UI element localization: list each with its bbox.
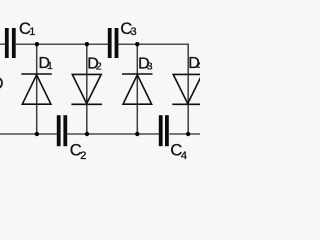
wire vertical D1 branch: [36, 44, 38, 134]
capacitor C1: [5, 28, 9, 58]
node dot bottom rail / D4: [186, 132, 190, 136]
wire vertical D2 branch: [86, 44, 88, 134]
node dot bottom rail / D3: [135, 132, 139, 136]
diode D4 (pointing down, clipped at right edge): [172, 74, 203, 104]
capacitor C4: [159, 115, 163, 146]
svg-text:1: 1: [47, 60, 53, 72]
diode D3 (pointing up): [122, 74, 153, 104]
svg-text:2: 2: [96, 61, 102, 73]
svg-text:3: 3: [131, 26, 137, 38]
node dot bottom rail / D1: [35, 132, 39, 136]
wire top rail segment C1 to C3: [16, 43, 108, 45]
wire vertical D4 branch (from top-rail corner to bottom rail): [187, 44, 189, 135]
wire bottom rail segment C2 to C4: [67, 133, 159, 135]
capacitor C3: [108, 28, 112, 58]
wire top rail segment left of C1: [0, 43, 5, 45]
wire vertical D3 branch: [136, 44, 138, 134]
svg-text:3: 3: [147, 61, 153, 73]
node dot top rail / D1: [35, 42, 39, 46]
AC source (partial circle at left edge): [0, 77, 2, 89]
svg-text:2: 2: [80, 150, 86, 162]
wire top rail segment C3 to corner: [118, 43, 188, 45]
wire bottom rail segment left of C2: [0, 133, 57, 135]
svg-text:4: 4: [197, 60, 201, 72]
node dot top rail / D2: [85, 42, 89, 46]
capacitor C2: [57, 115, 61, 146]
wire bottom rail segment C4 to right edge: [169, 133, 200, 135]
node dot top rail / D3: [135, 42, 139, 46]
diode D1 (pointing up): [21, 74, 52, 104]
svg-text:1: 1: [29, 26, 35, 38]
svg-text:4: 4: [181, 150, 187, 162]
diode D2 (pointing down): [71, 74, 102, 104]
node dot bottom rail / D2: [85, 132, 89, 136]
